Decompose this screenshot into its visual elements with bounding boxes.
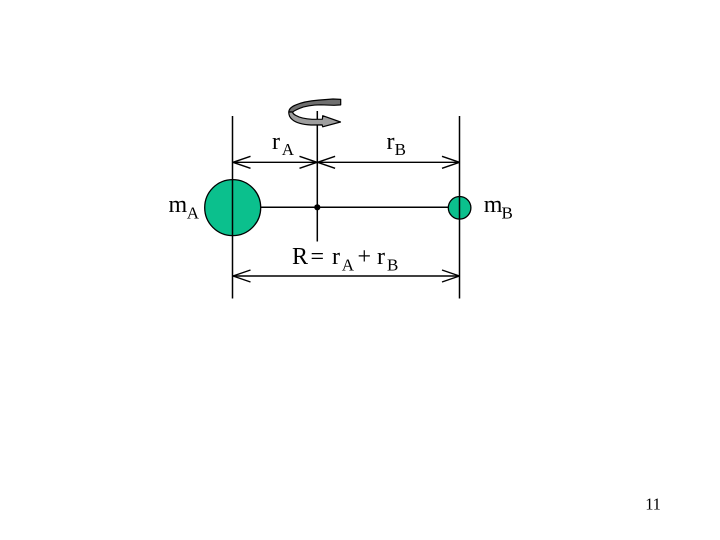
svg-text:r: r <box>377 244 385 270</box>
mass B circle <box>448 197 471 220</box>
svg-text:m: m <box>169 192 188 218</box>
svg-text:+: + <box>358 244 372 270</box>
wire right boundary vertical line <box>459 116 461 299</box>
node center of mass dot <box>314 204 320 210</box>
dimension arrow rA <box>233 156 317 168</box>
svg-text:1: 1 <box>653 495 661 514</box>
svg-text:R: R <box>292 244 308 270</box>
wire left boundary vertical line <box>232 116 234 299</box>
wire horizontal connecting rod between masses <box>260 206 449 208</box>
svg-text:r: r <box>272 129 280 155</box>
svg-text:r: r <box>387 129 395 155</box>
mass A circle <box>205 180 261 236</box>
svg-text:A: A <box>282 140 295 159</box>
svg-text:B: B <box>387 255 398 274</box>
svg-text:m: m <box>484 192 503 218</box>
svg-text:B: B <box>502 203 513 222</box>
dimension arrow R total <box>233 270 460 282</box>
svg-text:r: r <box>332 244 340 270</box>
svg-text:=: = <box>311 244 325 270</box>
dimension arrow rB <box>318 156 460 168</box>
wire center rotation-axis vertical line <box>316 111 318 242</box>
rotation arrow lower band with arrowhead <box>289 112 341 127</box>
svg-text:B: B <box>395 140 406 159</box>
rotation arrow upper band <box>289 99 341 112</box>
svg-text:A: A <box>342 255 355 274</box>
svg-text:A: A <box>187 203 200 222</box>
